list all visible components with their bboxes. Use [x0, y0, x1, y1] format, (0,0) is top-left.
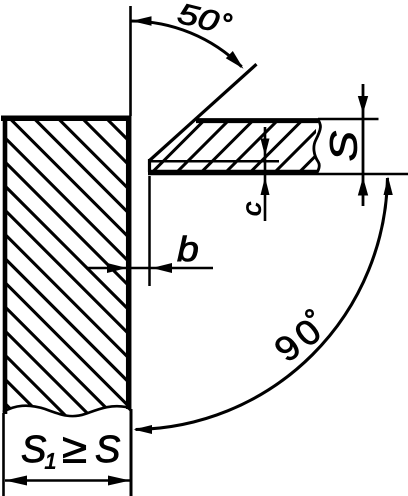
50 degree arc arrow right: [226, 51, 244, 69]
S arrow up: [358, 177, 368, 196]
S arrow down: [358, 96, 368, 114]
c extension line: [151, 160, 279, 163]
right plate root face: [148, 159, 151, 172]
S dimension line: [362, 84, 365, 206]
c dimension line: [264, 127, 267, 221]
90 degree arc arrow up: [384, 177, 393, 196]
left plate outline: top edge: [1, 116, 131, 122]
b dimension line: [86, 267, 213, 270]
label 90 degrees: [276, 321, 319, 360]
90 degree arc arrow left: [134, 425, 153, 434]
right plate top edge: [196, 118, 318, 123]
right plate bevel line: [150, 64, 257, 160]
right plate hatching: [135, 50, 408, 190]
label c: [247, 202, 261, 215]
S1 dimension arrow right: [108, 476, 130, 486]
degree circle for 50: [225, 14, 232, 21]
S1 dimension arrow left: [5, 476, 27, 486]
b arrow pointing left: [152, 263, 172, 273]
label S1 >= S: [22, 435, 46, 462]
left plate outline: left edge: [3, 116, 8, 415]
label 50 degrees: [178, 4, 219, 30]
left plate break line (wavy): [3, 406, 131, 416]
b arrow pointing right: [107, 263, 127, 273]
left extension line below break: [2, 413, 5, 496]
S1 dimension line: [5, 479, 130, 482]
label S: [330, 131, 357, 160]
bottom edge extension line: [318, 173, 408, 176]
c arrow down: [261, 139, 270, 157]
right extension line below break: [130, 409, 133, 496]
degree circle for 90: [306, 310, 313, 317]
50 degree arc: [131, 21, 242, 67]
c arrow up: [261, 177, 270, 195]
label b: [178, 236, 198, 262]
top edge extension line: [318, 118, 379, 121]
90 degree arc: [136, 178, 388, 430]
left plate outline: right edge: [126, 116, 132, 409]
vertical extension line above left plate: [129, 6, 132, 116]
right plate break line (wavy): [314, 119, 321, 173]
right plate bottom edge: [148, 170, 318, 176]
50 degree arc arrow left: [132, 16, 152, 25]
b extension line below root: [148, 176, 151, 286]
